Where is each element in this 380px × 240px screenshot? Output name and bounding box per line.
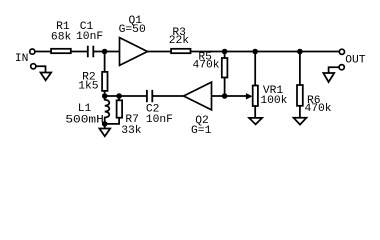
- svg-text:G=1: G=1: [191, 125, 212, 137]
- ground under VR1: [249, 118, 262, 125]
- resistor R7: [118, 96, 120, 100]
- wire R1 to C1: [71, 51, 87, 53]
- svg-text:100k: 100k: [260, 95, 287, 107]
- node junction dot R7 top: [116, 93, 122, 99]
- node junction dot L1/R7 bottom: [102, 121, 108, 127]
- capacitor C2: [146, 90, 148, 102]
- svg-text:10nF: 10nF: [146, 114, 173, 126]
- node junction dot VR1 top: [252, 49, 258, 55]
- wire OUT ground elbow: [329, 67, 339, 73]
- wire Q1 to R3: [147, 51, 171, 53]
- node IN ground terminal circle: [31, 64, 36, 69]
- node junction dot R5 bottom: [222, 93, 228, 99]
- wire C2 to Q2: [153, 95, 184, 97]
- ground OUT: [323, 73, 334, 82]
- node junction dot L1 top: [102, 93, 108, 99]
- op-amp Q1: [120, 38, 148, 66]
- node OUT ground terminal circle: [339, 65, 344, 70]
- svg-text:R7: R7: [125, 114, 139, 126]
- svg-text:68k: 68k: [51, 31, 72, 43]
- svg-text:22k: 22k: [169, 35, 190, 47]
- svg-text:500mH: 500mH: [65, 115, 104, 127]
- svg-text:G=50: G=50: [119, 24, 146, 36]
- wire R3 to OUT: [191, 51, 340, 53]
- node IN terminal circle: [30, 49, 35, 54]
- node junction dot R6 top: [297, 49, 303, 55]
- wiper arrow into VR1: [246, 93, 253, 99]
- svg-text:OUT: OUT: [345, 54, 366, 66]
- op-amp Q2: [184, 82, 212, 110]
- resistor R1: [51, 49, 71, 53]
- wire lower rail to C2: [105, 95, 146, 97]
- resistor R6: [299, 52, 301, 86]
- svg-text:L1: L1: [78, 103, 92, 115]
- node OUT terminal circle: [339, 49, 344, 54]
- ground under R6: [294, 118, 307, 125]
- potentiometer VR1: [254, 52, 256, 86]
- wire C1 to Q1: [94, 51, 120, 53]
- wire IN to R1: [35, 51, 51, 53]
- wire Q2 to VR1 wiper: [212, 95, 248, 97]
- ground under L1/R7: [104, 124, 106, 129]
- ground IN: [41, 73, 52, 81]
- svg-text:1k5: 1k5: [78, 80, 99, 92]
- resistor R5: [224, 52, 226, 59]
- resistor R2: [104, 52, 106, 72]
- node junction dot C1/R2: [102, 49, 108, 55]
- svg-text:10nF: 10nF: [76, 31, 103, 43]
- svg-text:IN: IN: [15, 53, 29, 65]
- capacitor C1: [87, 46, 89, 58]
- svg-text:470k: 470k: [192, 60, 219, 72]
- svg-text:33k: 33k: [121, 125, 142, 137]
- node junction dot R5 top: [222, 49, 228, 55]
- resistor R3: [171, 49, 190, 53]
- svg-text:470k: 470k: [304, 103, 331, 115]
- inductor L1: [105, 96, 110, 124]
- wire IN ground elbow: [36, 66, 45, 72]
